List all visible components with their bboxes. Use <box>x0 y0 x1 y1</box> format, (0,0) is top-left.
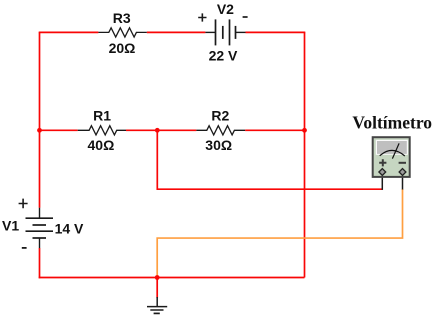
wire orange to voltmeter minus <box>157 189 402 278</box>
wire middle segment right <box>245 129 304 131</box>
voltmeter scale arc <box>380 150 405 156</box>
wire top segment middle <box>147 31 206 33</box>
wire V1 bottom lead <box>39 248 41 278</box>
voltmeter terminal minus <box>399 169 406 176</box>
label V2 minus <box>243 16 248 18</box>
voltmeter body <box>373 137 410 177</box>
wire probe red to voltmeter plus <box>157 130 382 189</box>
label V1 plus <box>19 199 28 209</box>
voltmeter lead stub plus <box>381 174 383 190</box>
wire top segment right <box>246 31 306 33</box>
wire bottom <box>39 277 305 279</box>
wire left vertical <box>39 32 41 207</box>
label V1 minus <box>22 247 27 249</box>
voltmeter U1 <box>373 137 410 190</box>
ground <box>147 297 167 313</box>
svg-text:R3: R3 <box>113 10 131 26</box>
node junction center-middle <box>155 128 160 133</box>
svg-text:Voltímetro: Voltímetro <box>352 113 432 133</box>
battery V1 <box>26 208 54 248</box>
wire middle segment left <box>40 129 78 131</box>
svg-text:40Ω: 40Ω <box>88 137 115 153</box>
svg-text:14 V: 14 V <box>55 220 84 236</box>
voltmeter lead stub minus <box>402 174 404 190</box>
wire middle segment center <box>126 129 196 131</box>
svg-text:22 V: 22 V <box>209 48 238 64</box>
svg-text:R2: R2 <box>211 108 229 124</box>
wire right vertical <box>304 32 306 277</box>
voltmeter screen <box>377 141 407 154</box>
wire ground stub red <box>156 278 158 298</box>
voltmeter plus mark <box>379 159 386 166</box>
svg-text:30Ω: 30Ω <box>205 137 232 153</box>
resistor R1 <box>78 126 126 135</box>
voltmeter minus mark <box>399 162 406 164</box>
svg-text:20Ω: 20Ω <box>109 40 136 56</box>
label V2 plus <box>198 13 206 21</box>
resistor R2 <box>196 126 245 135</box>
wire top segment left <box>39 31 99 33</box>
voltmeter needle <box>392 143 399 158</box>
svg-text:R1: R1 <box>93 107 111 123</box>
svg-text:V1: V1 <box>2 218 19 234</box>
node junction bottom-ground <box>155 275 160 280</box>
node junction right-middle <box>302 128 307 133</box>
voltmeter screen rim <box>376 140 408 155</box>
battery V2 <box>205 19 245 45</box>
node junction left-middle <box>37 128 42 133</box>
voltmeter terminal plus <box>379 169 386 176</box>
svg-text:V2: V2 <box>217 1 234 17</box>
resistor R3 <box>98 28 146 37</box>
